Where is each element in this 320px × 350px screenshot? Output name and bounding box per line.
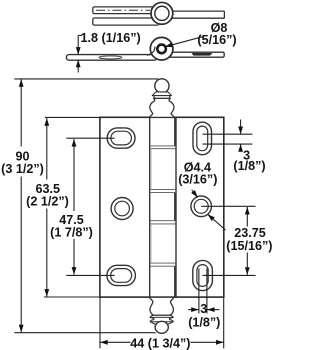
svg-text:44 (1 3/4”): 44 (1 3/4”) <box>130 337 190 350</box>
svg-text:(3/16”): (3/16”) <box>178 172 217 186</box>
svg-text:(5/16”): (5/16”) <box>197 33 236 47</box>
svg-text:(1 7/8”): (1 7/8”) <box>50 226 93 240</box>
svg-text:3: 3 <box>200 302 207 316</box>
svg-text:(2 1/2”): (2 1/2”) <box>26 195 69 209</box>
svg-text:(1/8”): (1/8”) <box>233 159 265 173</box>
svg-text:1.8 (1/16”): 1.8 (1/16”) <box>81 31 141 45</box>
svg-text:(1/8”): (1/8”) <box>188 316 220 330</box>
svg-text:(3 1/2”): (3 1/2”) <box>1 162 44 176</box>
svg-text:(15/16”): (15/16”) <box>226 239 272 253</box>
